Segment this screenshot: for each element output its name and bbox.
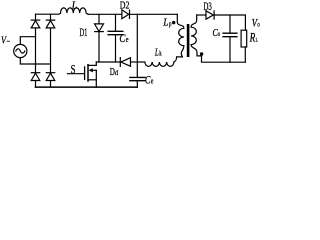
svg-text:D2: D2 bbox=[120, 0, 130, 11]
wire Lk up to primary bottom bbox=[174, 57, 182, 62]
capacitor Co plates bbox=[223, 33, 237, 37]
diode D2 bbox=[122, 10, 130, 19]
inductor L bbox=[61, 8, 89, 14]
wire inductor to D2 bbox=[88, 13, 122, 15]
svg-text:∼: ∼ bbox=[6, 38, 10, 46]
diode Dd bbox=[120, 58, 130, 67]
bridge right leg bbox=[50, 14, 52, 87]
wire D2 cathode to transformer corner bbox=[130, 13, 178, 15]
resistor RL bbox=[241, 30, 247, 47]
svg-text:L: L bbox=[71, 0, 78, 11]
MOSFET S channel bar bbox=[87, 65, 89, 81]
svg-text:o: o bbox=[218, 30, 221, 38]
diode D1 bbox=[95, 24, 104, 32]
wire AC bottom to bridge right leg bbox=[20, 58, 50, 64]
MOSFET S gate lead bbox=[68, 73, 85, 75]
wire D3 to output corner bbox=[214, 15, 245, 30]
diode bridge D bottom-right bbox=[46, 73, 55, 81]
svg-text:d: d bbox=[115, 68, 118, 77]
diode bridge D top-right bbox=[46, 20, 55, 28]
wire secondary top to D3 bbox=[197, 14, 206, 16]
transformer secondary winding bbox=[191, 15, 201, 56]
capacitor Ce (upper) plates bbox=[108, 31, 123, 34]
MOSFET S gate bar bbox=[84, 67, 86, 80]
wire D1 cathode down to node line bbox=[98, 32, 100, 62]
wire AC top to bridge left leg bbox=[20, 37, 35, 45]
MOSFET S source vertical to bottom rail bbox=[95, 70, 97, 87]
AC source Vac bbox=[14, 44, 27, 57]
MOSFET S source lead bbox=[88, 79, 96, 81]
wire Ce (upper) down to node line bbox=[115, 35, 117, 62]
svg-text:R: R bbox=[249, 31, 256, 45]
wire Dd to Lk bbox=[131, 61, 145, 63]
dot secondary bbox=[200, 52, 203, 55]
diode bridge D bottom-left bbox=[31, 73, 40, 81]
svg-text:L: L bbox=[163, 17, 169, 28]
svg-text:D3: D3 bbox=[204, 1, 213, 13]
wire RL bottom to output bottom bbox=[244, 47, 246, 62]
leakage inductor Lk bbox=[145, 62, 174, 66]
svg-text:D1: D1 bbox=[80, 25, 88, 39]
diode bridge D top-left bbox=[31, 20, 40, 28]
svg-text:S: S bbox=[71, 63, 76, 77]
wire Co down to bottom bbox=[229, 37, 231, 62]
bridge top wire bbox=[36, 13, 61, 14]
svg-text:o: o bbox=[257, 21, 260, 29]
capacitor Co lead from rail bbox=[229, 15, 231, 33]
capacitor Ce (upper) lead from rail bbox=[115, 14, 117, 31]
output bottom wire bbox=[202, 56, 246, 62]
dot primary bbox=[172, 21, 175, 24]
svg-text:C: C bbox=[119, 32, 125, 45]
capacitor Ce (lower) bottom lead bbox=[136, 81, 138, 87]
svg-text:e: e bbox=[126, 35, 129, 44]
bridge bottom rail bbox=[36, 86, 138, 88]
svg-text:p: p bbox=[169, 20, 172, 28]
MOSFET S drain lead bbox=[88, 62, 96, 65]
svg-text:k: k bbox=[159, 50, 162, 58]
diode D3 bbox=[206, 11, 214, 19]
svg-text:C: C bbox=[145, 74, 151, 86]
transformer core bbox=[187, 24, 190, 57]
node junction after L bbox=[98, 14, 100, 24]
capacitor Ce (lower) plates bbox=[130, 77, 145, 80]
MOSFET S body lead with arrow bbox=[89, 68, 97, 72]
bridge left leg bbox=[35, 14, 37, 87]
node line (drain to Dd to Lk) bbox=[96, 61, 120, 63]
transformer primary Lp winding bbox=[177, 14, 184, 57]
svg-text:L: L bbox=[256, 38, 259, 44]
svg-text:e: e bbox=[151, 76, 154, 85]
wire long vertical from rail to Ce (lower) bbox=[136, 14, 138, 77]
